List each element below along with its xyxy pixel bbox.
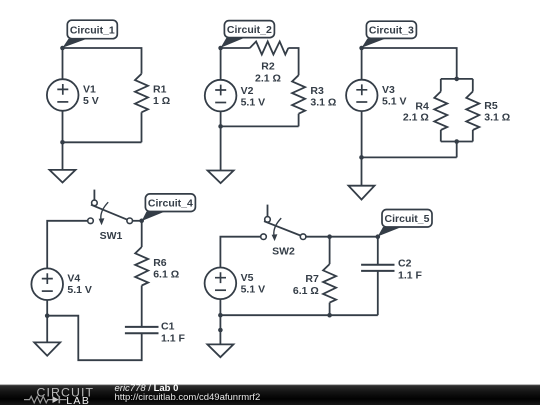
net label Circuit_3 <box>362 21 417 48</box>
svg-text:V2: V2 <box>241 85 254 97</box>
svg-text:1 Ω: 1 Ω <box>153 95 170 107</box>
svg-text:6.1 Ω: 6.1 Ω <box>293 285 319 297</box>
svg-text:3.1 Ω: 3.1 Ω <box>484 111 510 123</box>
wire: Circuit_3 bottom <box>362 156 457 158</box>
wire: V4 bottom lead <box>46 300 48 316</box>
wire: Circuit_3 top <box>362 48 457 79</box>
ground: Circuit_4 <box>34 316 60 356</box>
voltage source V1 <box>47 79 79 111</box>
svg-text:Circuit_5: Circuit_5 <box>385 213 430 225</box>
svg-text:C1: C1 <box>161 321 175 333</box>
wire: R1 bottom lead <box>141 112 143 142</box>
svg-text:SW2: SW2 <box>272 246 295 258</box>
voltage source V5 <box>205 268 237 300</box>
net label Circuit_5 <box>378 210 432 237</box>
node: SW2-C2 junction <box>376 234 381 239</box>
resistor R2 <box>250 42 288 55</box>
svg-text:SW1: SW1 <box>100 230 123 242</box>
wire: R7 top lead <box>329 237 331 264</box>
wire: Circuit_5 bottom rail <box>220 314 377 316</box>
wire: Circuit_2 top-left to R2 <box>221 47 250 49</box>
ground: Circuit_3 <box>349 157 375 199</box>
wire: R7 bottom lead <box>329 303 331 316</box>
voltage source V2 <box>205 80 237 112</box>
wire: C2 bottom lead to rail <box>377 271 379 315</box>
wire: R4 bottom lead <box>440 130 442 142</box>
node: SW1 output junction <box>139 219 144 224</box>
svg-text:5 V: 5 V <box>83 95 99 107</box>
node: Circuit_3 bottom-left junction <box>359 155 364 160</box>
wire: V1 top lead <box>62 48 64 79</box>
svg-text:6.1 Ω: 6.1 Ω <box>153 269 179 281</box>
svg-text:5.1 V: 5.1 V <box>67 284 92 296</box>
wire: SW2 left contact to V5 <box>220 237 260 268</box>
svg-text:V4: V4 <box>67 273 80 285</box>
net label Circuit_2 <box>221 21 275 48</box>
svg-text:5.1 V: 5.1 V <box>241 283 266 295</box>
resistor R7 <box>323 264 336 303</box>
svg-text:R1: R1 <box>153 84 167 96</box>
svg-text:Circuit_4: Circuit_4 <box>148 197 193 209</box>
node: parallel top junction <box>454 77 459 82</box>
svg-text:3.1 Ω: 3.1 Ω <box>310 96 336 108</box>
logo resistor-diode glyph <box>24 396 67 403</box>
wire: R5 top lead <box>472 79 474 92</box>
resistor R5 <box>466 92 479 131</box>
capacitor C2 <box>361 265 394 271</box>
wire: R6 top lead <box>141 221 143 247</box>
resistor R1 <box>135 74 148 113</box>
wire: C2 top lead <box>377 237 379 265</box>
wire: R4 top lead <box>440 79 442 92</box>
node: V4 bottom junction <box>45 313 50 318</box>
svg-text:2.1 Ω: 2.1 Ω <box>403 111 429 123</box>
node: Circuit_1 top-left junction <box>60 46 65 51</box>
net label Circuit_1 <box>63 20 118 48</box>
wire: V5 to ground stub <box>219 315 221 344</box>
wire: R3 bottom lead <box>298 114 300 127</box>
node: parallel bottom junction <box>454 139 459 144</box>
node: V5 bottom junction <box>218 313 223 318</box>
footer bar <box>0 385 540 405</box>
wire: V5 bottom lead <box>219 299 221 315</box>
ground: Circuit_5 <box>207 344 233 357</box>
ground: Circuit_1 <box>50 142 76 182</box>
svg-text:5.1 V: 5.1 V <box>241 96 266 108</box>
svg-text:C2: C2 <box>398 257 412 269</box>
switch SW1 <box>88 190 133 226</box>
wire: Circuit_2 bottom <box>221 125 299 127</box>
wire: V2 bottom lead <box>220 111 222 126</box>
wire: parallel to bottom rail <box>456 142 458 158</box>
ground: Circuit_2 <box>208 126 234 183</box>
svg-text:2.1 Ω: 2.1 Ω <box>255 72 281 84</box>
switch SW2 <box>261 205 306 242</box>
wire: SW1 right contact to node <box>133 220 142 222</box>
voltage source V4 <box>31 268 63 300</box>
wire: Circuit_1 top <box>63 48 142 74</box>
svg-text:R5: R5 <box>484 100 498 112</box>
wire: V2 top lead <box>220 48 222 80</box>
wire: R5 bottom lead <box>472 130 474 142</box>
resistor R4 <box>434 92 447 131</box>
svg-text:1.1 F: 1.1 F <box>398 269 423 281</box>
svg-text:Circuit_3: Circuit_3 <box>369 24 414 36</box>
node: R7 bottom junction <box>327 313 332 318</box>
svg-text:1.1 F: 1.1 F <box>161 333 186 345</box>
wire: V1 bottom lead <box>62 111 64 143</box>
resistor R3 <box>292 75 305 114</box>
node: SW2-R7 junction <box>327 234 332 239</box>
svg-text:R6: R6 <box>153 257 167 269</box>
node: Circuit_2 bottom-left junction <box>218 124 223 129</box>
net label Circuit_4 <box>142 194 196 221</box>
node: Circuit_2 top-left junction <box>218 46 223 51</box>
wire: V3 top lead <box>361 48 363 80</box>
wire: parallel bottom bar <box>441 141 473 143</box>
wire: R2 right lead to corner <box>288 48 298 75</box>
svg-text:V3: V3 <box>382 84 395 96</box>
resistor R6 <box>135 247 148 286</box>
svg-text:Circuit_2: Circuit_2 <box>227 24 272 36</box>
svg-text:R3: R3 <box>310 85 324 97</box>
wire: R6 to C1 <box>141 286 143 327</box>
wire: parallel top bar <box>441 78 473 80</box>
node: ground stub junction <box>218 328 223 333</box>
svg-text:5.1 V: 5.1 V <box>382 96 407 108</box>
wire: Circuit_1 bottom <box>63 141 142 143</box>
svg-text:R7: R7 <box>305 273 319 285</box>
node: Circuit_1 bottom-left junction <box>60 140 65 145</box>
wire: SW2 right contact to C2 node <box>306 236 378 238</box>
svg-text:Circuit_1: Circuit_1 <box>70 24 115 36</box>
wire: SW1 left contact to V4 <box>47 221 87 269</box>
node: Circuit_3 top-left junction <box>359 46 364 51</box>
svg-text:V1: V1 <box>83 84 96 96</box>
svg-text:R2: R2 <box>261 61 275 73</box>
voltage source V3 <box>346 80 377 111</box>
svg-text:LAB: LAB <box>66 395 90 405</box>
capacitor C1 <box>125 327 159 333</box>
wire: V3 bottom lead <box>361 111 363 157</box>
wire: C1 bottom return to V4 <box>47 316 142 361</box>
svg-text:http://circuitlab.com/cd49afun: http://circuitlab.com/cd49afunrmrf2 <box>115 392 261 403</box>
svg-text:V5: V5 <box>241 272 254 284</box>
